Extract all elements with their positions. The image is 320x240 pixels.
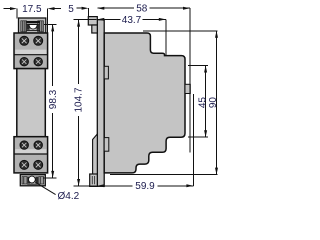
dimension 90 (body height): [110, 31, 217, 175]
screw terminal B2: [34, 58, 42, 66]
dimension 98.3 (front height): [43, 24, 57, 178]
dimension 17.5 (front width): [4, 9, 62, 33]
DIN rail clip tab lower: [104, 138, 109, 152]
svg-text:43.7: 43.7: [122, 15, 142, 26]
front view bottom clip box with sealing hole: [20, 175, 45, 186]
svg-text:59.9: 59.9: [135, 181, 155, 192]
dimension 104.7 (overall height): [74, 20, 97, 186]
front view top terminal block: [14, 33, 48, 69]
svg-text:Ø4.2: Ø4.2: [58, 191, 80, 202]
side view top sealing clip lever: [88, 17, 97, 25]
screw terminal D1: [20, 160, 29, 169]
screw terminal B1: [20, 58, 28, 66]
side view rear mounting plate (edge-on strip): [97, 20, 104, 187]
front view housing body: [17, 69, 46, 137]
screw terminal A2: [34, 36, 43, 45]
svg-text:45: 45: [197, 97, 208, 109]
side view bottom clip slider: [93, 134, 98, 174]
dimension 59.9 (bottom depth): [97, 94, 193, 186]
dimension 43.7 (partial depth): [97, 19, 166, 55]
leader and label diameter 4.2: [35, 182, 55, 194]
screw terminal D2: [34, 160, 43, 169]
svg-text:98.3: 98.3: [48, 89, 59, 109]
svg-text:58: 58: [136, 4, 148, 15]
svg-text:17.5: 17.5: [22, 4, 42, 15]
rear face small tab: [185, 84, 190, 93]
screw terminal C1: [20, 141, 28, 149]
svg-text:5: 5: [68, 4, 74, 15]
dimension 58 (overall depth): [97, 8, 190, 152]
side view housing profile: [104, 33, 185, 173]
front view bottom terminal block: [14, 137, 48, 173]
DIN rail clip tab upper: [104, 66, 108, 79]
screw terminal A1: [20, 36, 29, 45]
svg-text:104.7: 104.7: [74, 87, 85, 112]
svg-text:90: 90: [208, 97, 219, 109]
screw terminal C2: [34, 141, 42, 149]
dimension 45 (rail clip span): [188, 66, 208, 138]
front view top clip box: [19, 18, 46, 33]
